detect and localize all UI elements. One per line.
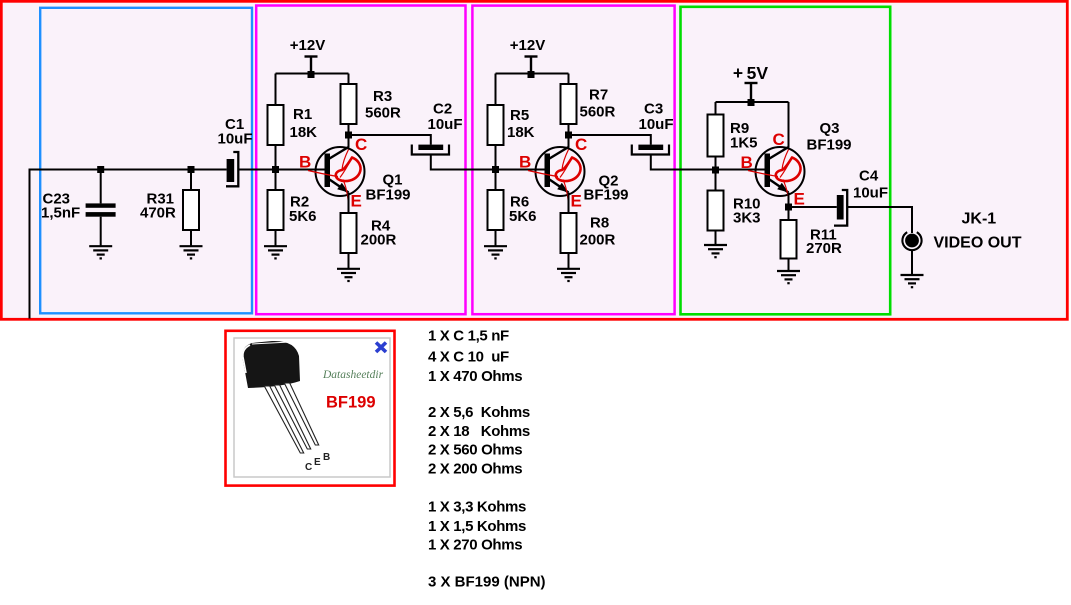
node collector stage 2 — [565, 132, 572, 139]
svg-text:BF199: BF199 — [807, 137, 852, 154]
svg-text:270R: 270R — [806, 240, 842, 257]
ground R4 — [337, 269, 360, 281]
svg-text:1 X 3,3 Kohms: 1 X 3,3 Kohms — [428, 499, 526, 516]
svg-text:1K5: 1K5 — [730, 135, 758, 152]
wire R1 to base node — [275, 145, 277, 190]
transistor Q1 (NPN BF199) — [316, 147, 365, 196]
svg-text:1 X C 1,5 nF: 1 X C 1,5 nF — [428, 328, 509, 345]
node collector stage 1 — [345, 132, 352, 139]
wire rail to R1 — [275, 74, 277, 106]
resistor R2 — [268, 190, 284, 230]
svg-text:C: C — [355, 135, 367, 154]
svg-text:E: E — [794, 190, 805, 209]
wire emitter Q3 down — [788, 193, 790, 221]
wire jack to ground — [911, 250, 913, 275]
capacitor C1 — [227, 159, 235, 182]
resistor R3 — [341, 84, 357, 124]
svg-text:R8: R8 — [590, 215, 609, 232]
svg-text:C: C — [305, 462, 312, 473]
node +5V rail — [748, 99, 755, 106]
power rail +12V supply stage 2 — [525, 57, 538, 74]
blue section frame (input filter) — [40, 8, 252, 314]
BF199 datasheet thumbnail box — [226, 331, 395, 486]
svg-text:B: B — [741, 153, 753, 172]
wire rail to collector Q3 — [788, 102, 790, 148]
svg-text:R5: R5 — [510, 107, 529, 124]
svg-text:1 X 470 Ohms: 1 X 470 Ohms — [428, 368, 522, 385]
svg-text:560R: 560R — [365, 105, 401, 122]
wire rail to R9 — [715, 102, 717, 115]
ground C23 — [89, 246, 112, 258]
svg-text:R3: R3 — [373, 88, 392, 105]
svg-text:+12V: +12V — [290, 37, 325, 54]
svg-text:C4: C4 — [859, 168, 879, 185]
wire R11 to ground — [788, 259, 790, 271]
svg-text:2 X 560 Ohms: 2 X 560 Ohms — [428, 441, 522, 458]
wire emitter to R8 — [568, 193, 570, 214]
resistor R11 — [781, 220, 797, 259]
svg-text:C2: C2 — [433, 101, 452, 118]
ground R8 — [557, 269, 580, 281]
svg-text:+12V: +12V — [510, 37, 545, 54]
transistor Q2 (NPN BF199) — [536, 147, 585, 196]
svg-text:C: C — [575, 135, 587, 154]
svg-text:3K3: 3K3 — [733, 210, 761, 227]
wire emitter to R4 — [348, 193, 350, 214]
resistor R6 — [488, 190, 504, 230]
svg-text:560R: 560R — [580, 104, 616, 121]
svg-text:BF199: BF199 — [326, 394, 376, 412]
ground R2 — [264, 246, 287, 258]
magenta frame stage 2 — [472, 6, 674, 315]
svg-text:VIDEO OUT: VIDEO OUT — [934, 235, 1022, 252]
wire R2 to ground — [275, 230, 277, 246]
node +12V rail stage 2 — [528, 71, 535, 78]
TO-92 transistor package drawing — [242, 341, 300, 388]
svg-text:1,5nF: 1,5nF — [41, 205, 80, 222]
capacitor C4 — [837, 195, 844, 220]
svg-text:C3: C3 — [644, 101, 663, 118]
ground JK-1 — [901, 275, 924, 287]
wire C23 bottom lead — [100, 217, 102, 246]
red marker scribble on Q1 — [308, 150, 361, 213]
ground R6 — [484, 246, 507, 258]
resistor R4 — [341, 213, 357, 253]
magenta frame stage 1 — [256, 6, 465, 315]
wire R4 to ground — [348, 253, 350, 269]
svg-text:5K6: 5K6 — [509, 208, 537, 225]
svg-text:JK-1: JK-1 — [962, 211, 997, 228]
power rail +12V supply stage 1 — [305, 57, 318, 74]
wire R5 to base node — [495, 145, 497, 190]
schematic background and red frame — [1, 1, 1067, 319]
resistor R1 — [268, 105, 284, 145]
ground R31 — [180, 246, 203, 258]
wire R31 bottom lead — [190, 230, 192, 246]
svg-text:200R: 200R — [580, 232, 616, 249]
wire collector to C2 — [349, 135, 431, 145]
node C23 top — [97, 166, 104, 173]
TO-92 legs — [264, 386, 303, 453]
node base divider stage 2 — [492, 166, 499, 173]
svg-text:B: B — [299, 153, 311, 172]
wire C23 top lead — [100, 170, 102, 204]
resistor R31 — [183, 190, 199, 230]
resistor R9 — [708, 115, 724, 157]
svg-text:1 X 1,5 Kohms: 1 X 1,5 Kohms — [428, 518, 526, 535]
svg-text:B: B — [323, 452, 330, 463]
wire rail to R3 — [348, 74, 350, 85]
wire rail to R7 — [568, 74, 570, 85]
resistor R10 — [708, 191, 724, 231]
svg-text:E: E — [571, 192, 582, 211]
wire +12V rail stage 2 — [496, 73, 569, 75]
wire R7 to collector — [568, 124, 570, 148]
svg-text:2 X 18 Kohms: 2 X 18 Kohms — [428, 423, 530, 440]
svg-text:10uF: 10uF — [639, 116, 674, 133]
svg-text:E: E — [314, 457, 321, 468]
svg-text:470R: 470R — [140, 205, 176, 222]
resistor R5 — [488, 105, 504, 145]
svg-text:4 X C 10 uF: 4 X C 10 uF — [428, 348, 509, 365]
node base divider stage 1 — [272, 166, 279, 173]
wire collector to C3 — [569, 135, 651, 145]
green frame stage 3 — [681, 7, 891, 315]
wire +12V rail stage 1 — [276, 73, 349, 75]
svg-text:10uF: 10uF — [853, 185, 888, 202]
wire +5V rail — [716, 101, 789, 103]
wire R9 to base node — [715, 157, 717, 191]
node emitter Q3 — [785, 204, 792, 211]
wire R3 to collector — [348, 124, 350, 148]
ground R11 — [777, 271, 800, 283]
wire video input (left vertical + main horizontal) — [30, 170, 227, 319]
svg-text:2 X 5,6 Kohms: 2 X 5,6 Kohms — [428, 404, 530, 421]
wire C4 to jack — [847, 207, 912, 233]
node base stage 3 — [712, 167, 719, 174]
power rail +5V supply — [745, 83, 758, 102]
svg-text:BF199: BF199 — [366, 187, 411, 204]
capacitor C3 — [638, 145, 663, 150]
capacitor C2 — [418, 145, 443, 150]
wire rail to R5 — [495, 74, 497, 106]
svg-text:18K: 18K — [507, 124, 535, 141]
resistor R7 — [561, 84, 577, 124]
svg-text:3 X BF199 (NPN): 3 X BF199 (NPN) — [428, 573, 546, 590]
node +12V rail stage 1 — [308, 71, 315, 78]
svg-text:1 X 270 Ohms: 1 X 270 Ohms — [428, 537, 522, 554]
wire C2 output — [431, 154, 545, 169]
svg-text:R7: R7 — [589, 87, 608, 104]
svg-text:5K6: 5K6 — [289, 208, 317, 225]
wire C1 to stage1 base node — [238, 169, 325, 171]
svg-text:18K: 18K — [290, 124, 318, 141]
svg-text:E: E — [351, 192, 362, 211]
svg-text:R1: R1 — [293, 106, 312, 123]
capacitor C23 — [86, 203, 116, 207]
svg-text:2 X 200 Ohms: 2 X 200 Ohms — [428, 461, 522, 478]
svg-text:+ 5V: + 5V — [733, 63, 768, 83]
gray inner frame — [234, 338, 390, 477]
transistor Q3 (NPN BF199) — [756, 147, 805, 196]
wire R10 to ground — [715, 231, 717, 245]
red marker scribble on Q3 — [748, 150, 801, 205]
svg-text:10uF: 10uF — [428, 116, 463, 133]
ground R10 — [704, 245, 727, 257]
wire emitter to C4 — [789, 206, 837, 208]
wire R31 top lead — [190, 170, 192, 191]
svg-text:10uF: 10uF — [218, 131, 253, 148]
wire R8 to ground — [568, 253, 570, 269]
svg-text:C: C — [773, 130, 785, 149]
blue close X — [376, 343, 386, 353]
svg-text:Q3: Q3 — [820, 120, 840, 137]
node R31 top — [188, 166, 195, 173]
svg-text:200R: 200R — [361, 232, 397, 249]
red marker scribble on Q2 — [528, 150, 581, 213]
connector JK-1 (RCA jack) — [905, 234, 919, 248]
svg-text:BF199: BF199 — [584, 187, 629, 204]
wire R6 to ground — [495, 230, 497, 246]
wire C3 output — [651, 154, 765, 169]
svg-text:Datasheetdir: Datasheetdir — [322, 369, 384, 381]
resistor R8 — [561, 213, 577, 253]
svg-text:B: B — [519, 153, 531, 172]
